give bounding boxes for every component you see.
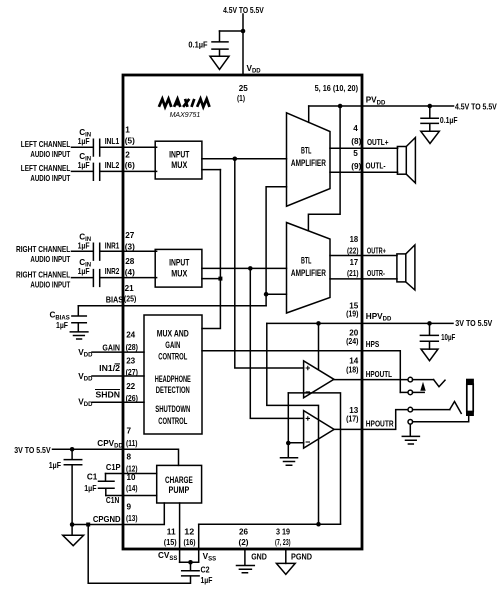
op-amp headphone R [304,411,335,449]
svg-text:1µF: 1µF [78,137,90,146]
jack contact circle tip R [408,407,413,412]
svg-text:(28): (28) [126,343,139,352]
op-amp headphone L [304,361,334,398]
wire detect contact [400,391,408,393]
wire mux1 select [202,169,221,171]
svg-text:CHARGE: CHARGE [165,475,193,485]
svg-text:CPVDD: CPVDD [97,439,123,450]
wire PGND pin [285,550,287,563]
svg-text:0.1µF: 0.1µF [188,41,207,50]
svg-text:GAIN: GAIN [102,343,120,352]
svg-text:SHUTDOWN: SHUTDOWN [155,404,190,414]
svg-text:1µF: 1µF [201,576,213,585]
svg-text:26: 26 [239,527,248,536]
svg-text:AUDIO INPUT: AUDIO INPUT [30,174,70,183]
svg-text:(19): (19) [346,310,359,319]
wire PVDD rail [309,105,454,107]
svg-text:(3): (3) [125,242,135,251]
svg-text:7: 7 [127,426,132,435]
wire VSS pin [180,524,199,562]
svg-text:AMPLIFIER: AMPLIFIER [291,268,326,278]
svg-text:VSS: VSS [203,552,216,563]
svg-text:INPUT: INPUT [169,149,190,159]
svg-text:4.5V TO 5.5V: 4.5V TO 5.5V [223,6,264,15]
svg-text:BTL: BTL [301,255,312,265]
wire opamp1 - feedback [288,393,340,524]
capacitor CIN 1uF INL2 [72,163,157,180]
svg-text:DETECTION: DETECTION [156,385,190,395]
node CPGND return junction [86,523,90,527]
svg-text:5, 16 (10, 20): 5, 16 (10, 20) [315,84,359,93]
wire SHDN pin [92,401,144,403]
node CPVDD junction [70,447,75,452]
svg-text:4: 4 [353,124,358,133]
svg-text:C1: C1 [87,473,98,482]
svg-text:(13): (13) [126,514,138,523]
svg-text:1: 1 [125,126,130,135]
svg-text:HPOUTL: HPOUTL [366,370,392,379]
capacitor CIN 1uF INR2 [72,270,157,287]
wire OUTR- [330,278,397,280]
svg-text:(26): (26) [126,394,139,403]
wire IN1/2 pin [92,375,144,377]
ground PGND triangle [276,563,295,574]
opamp1 minus sign [306,391,310,393]
svg-text:BIAS: BIAS [106,296,124,305]
input mux U-right box [155,249,202,287]
svg-text:10µF: 10µF [441,333,455,342]
opamp2 plus sign [306,416,310,420]
wire sleeve to jack [413,416,469,422]
wire HPOUTR [334,410,408,430]
svg-text:(17): (17) [346,414,359,423]
svg-text:3V TO 5.5V: 3V TO 5.5V [14,446,51,455]
capacitor 1uF CPVDD [64,449,81,524]
capacitor C2 1uF [182,562,199,576]
svg-text:C1N: C1N [106,496,119,505]
svg-text:(15): (15) [164,538,177,547]
wire CPGND [72,503,164,525]
node CPGND junction left [70,522,75,527]
svg-text:OUTR-: OUTR- [367,269,385,278]
wire supply to C-bypass top [220,30,244,32]
svg-text:LEFT CHANNEL: LEFT CHANNEL [21,164,71,173]
svg-text:AUDIO INPUT: AUDIO INPUT [30,280,70,289]
svg-text:VDD: VDD [247,64,262,75]
node PVDD junction at amp taps [338,104,343,109]
charge pump box [157,465,202,503]
svg-text:VDD: VDD [78,348,93,359]
svg-text:1µF: 1µF [78,267,90,276]
capacitor CBIAS 1uF [72,306,86,332]
svg-text:HPS: HPS [366,340,380,349]
wire mux1 to opamp1 + [235,159,304,368]
svg-text:HPOUTR: HPOUTR [366,419,394,428]
svg-text:(21): (21) [347,269,359,278]
svg-text:CONTROL: CONTROL [158,352,187,362]
svg-text:24: 24 [126,330,135,339]
svg-text:CVSS: CVSS [158,551,177,562]
wire BIAS [78,305,266,307]
svg-text:IN1/2: IN1/2 [99,364,120,373]
ground jack bars [402,436,419,444]
IC U1 MAX9751 box [123,75,362,549]
node opamp ground junction [286,441,291,446]
wire circle3 to lever R [413,409,450,411]
svg-text:INL2: INL2 [105,161,120,170]
wire control to mux select [202,170,220,329]
node mux select junction [218,277,222,281]
svg-text:(4): (4) [125,268,135,277]
svg-text:PVDD: PVDD [366,96,386,107]
svg-text:9: 9 [127,502,132,511]
switch lever R [450,402,461,414]
wire OUTR+ [330,255,397,257]
svg-text:3 19: 3 19 [276,527,290,536]
ground GND bars [237,566,255,573]
capacitor CIN 1uF INR1 [72,243,157,260]
svg-text:GAIN: GAIN [165,340,180,350]
control block box [144,315,202,434]
svg-text:8: 8 [127,452,132,461]
node HPVDD junction opamp1 [316,321,321,326]
svg-text:(7, 23): (7, 23) [275,538,291,547]
wire to opamp ground [287,443,289,457]
opamp1 plus sign [306,366,310,370]
ground HPVDD triangle [421,349,438,361]
svg-text:INR2: INR2 [105,267,120,276]
svg-text:12: 12 [184,527,194,536]
svg-text:1µF: 1µF [56,321,68,330]
ground PVDD bypass triangle [421,131,440,143]
op-amp BTL amplifier 2 [287,223,331,314]
svg-text:RIGHT CHANNEL: RIGHT CHANNEL [16,245,70,254]
wire C1P [106,473,157,475]
svg-text:1µF: 1µF [84,484,96,493]
svg-text:VDD: VDD [78,398,93,409]
node mux1 output junction [233,157,238,162]
svg-text:27: 27 [125,231,135,240]
svg-text:MUX AND: MUX AND [157,328,189,338]
speaker left channel [397,147,406,175]
node PVDD junction right supply [428,104,433,109]
wire bias to amplifiers [266,187,286,306]
svg-text:(22): (22) [347,246,359,255]
wire VSS internal rail [199,523,341,525]
svg-text:MUX: MUX [171,268,187,278]
svg-text:INPUT: INPUT [169,258,190,268]
input mux U-left box [155,141,202,179]
capacitor 10uF HPVDD [420,323,438,349]
node mux2 output junction [248,266,253,271]
wire HPOUTL [334,379,408,381]
jack contact circle sleeve [408,420,413,425]
svg-text:(2): (2) [238,538,248,547]
svg-text:OUTR+: OUTR+ [367,246,386,255]
wire PVDD tap to BTL amp1 [308,106,310,122]
wire PVDD tap to BTL amp2 [308,106,340,231]
svg-text:(27): (27) [126,368,139,377]
svg-text:(9): (9) [351,162,361,171]
svg-text:10: 10 [127,473,136,482]
svg-text:0.1µF: 0.1µF [440,116,458,125]
svg-text:INR1: INR1 [105,242,120,251]
speaker right channel [397,254,406,282]
wire mux2 to opamp2 + [250,268,303,418]
svg-text:(14): (14) [126,484,138,493]
svg-text:28: 28 [125,257,135,266]
node VSS rail junction [316,522,321,527]
svg-text:AUDIO INPUT: AUDIO INPUT [30,255,70,264]
wire CPVDD supply [53,449,179,465]
wire circle1 to lever [413,379,434,381]
jack contact circle tip L [408,377,413,382]
svg-text:OUTL+: OUTL+ [367,138,389,147]
svg-text:MUX: MUX [171,160,187,170]
wire C1N [106,495,157,497]
ground CBIAS bars [70,332,88,339]
jack contact circle detect [408,390,413,395]
node C2 junction [188,560,193,565]
wire CVSS pin [179,503,181,562]
wire mux1 output to BTL amp1 [202,158,287,160]
op-amp BTL amplifier 1 [287,113,331,206]
svg-text:HEADPHONE: HEADPHONE [155,374,191,384]
svg-text:17: 17 [350,258,359,267]
node VDD supply junction [241,29,246,34]
wire HPVDD to opamp2 power [267,323,319,524]
svg-text:(1): (1) [237,94,245,103]
svg-text:(18): (18) [346,365,359,374]
wire GAIN pin [92,351,144,353]
opamp2 minus sign [306,441,310,443]
overline IN1/2 bar over 2 [115,363,120,365]
node HPVDD junction right supply [427,321,432,326]
svg-text:(11): (11) [126,439,138,448]
svg-text:AMPLIFIER: AMPLIFIER [291,158,326,168]
svg-text:CONTROL: CONTROL [158,416,187,426]
switch lever L [434,380,445,387]
svg-text:(16): (16) [184,538,196,547]
wire OUTL+ [330,147,398,149]
svg-text:(5): (5) [125,137,135,146]
overline SHDN [95,389,120,391]
svg-text:INL1: INL1 [105,137,120,146]
svg-text:(24): (24) [346,337,359,346]
svg-text:SHDN: SHDN [96,390,121,399]
svg-text:CBIAS: CBIAS [50,311,70,322]
svg-text:PGND: PGND [291,552,312,561]
wire OUTL- [330,171,398,173]
wire sleeve to ground [409,424,411,436]
svg-text:OUTL-: OUTL- [366,162,386,171]
svg-text:(25): (25) [124,295,137,304]
capacitor 0.1uF top bypass [212,31,228,56]
node bias junction [264,292,269,297]
capacitor 0.1uF PVDD bypass [421,106,438,131]
ground CPVDD triangle [63,525,84,546]
logo MAXIM [159,99,210,107]
wire HPS row [202,351,400,393]
svg-text:21: 21 [125,284,134,293]
svg-text:1µF: 1µF [49,461,61,470]
wire HPVDD to opamp1 power [318,323,320,369]
wire VDD supply vertical [242,14,244,74]
svg-text:5: 5 [353,149,358,158]
svg-text:RIGHT CHANNEL: RIGHT CHANNEL [16,271,70,280]
svg-text:MAX9751: MAX9751 [170,110,201,119]
wire mux2 output to BTL amp2 [202,267,287,269]
svg-text:3V TO 5.5V: 3V TO 5.5V [455,319,492,328]
wire opamp1 - to ground rail [287,393,289,443]
svg-text:AUDIO INPUT: AUDIO INPUT [30,150,70,159]
headphone jack plug [466,379,474,385]
ground top bypass triangle [210,56,229,69]
wire circle2 to arrow [413,391,425,393]
wire ground return to C2 [88,525,190,584]
capacitor CIN 1uF INL1 [72,139,157,156]
svg-text:VDD: VDD [78,372,93,383]
svg-text:LEFT CHANNEL: LEFT CHANNEL [21,140,71,149]
svg-text:PUMP: PUMP [169,485,190,495]
svg-text:(8): (8) [351,137,361,146]
svg-text:BTL: BTL [301,145,312,155]
wire GND pin [244,550,246,565]
wire mux2 select [202,278,221,280]
svg-text:25: 25 [239,84,248,93]
svg-text:18: 18 [350,235,359,244]
svg-text:23: 23 [126,356,135,365]
svg-text:4.5V TO 5.5V: 4.5V TO 5.5V [455,102,497,111]
svg-text:2: 2 [125,150,130,159]
svg-text:11: 11 [167,527,176,536]
capacitor C1 1uF [99,474,115,496]
svg-text:CPGND: CPGND [93,515,121,524]
svg-text:C2: C2 [201,566,210,575]
ground opamp bars [281,458,298,466]
svg-text:GND: GND [251,552,267,561]
svg-text:22: 22 [126,382,135,391]
svg-text:(12): (12) [126,464,138,473]
svg-text:1µF: 1µF [78,242,90,251]
svg-text:HPVDD: HPVDD [366,312,392,323]
wire opamp2 - input [288,442,303,444]
svg-text:1µF: 1µF [78,161,90,170]
svg-text:(6): (6) [125,161,135,170]
wire HPVDD rail [267,322,453,324]
svg-text:C1P: C1P [106,463,121,472]
arrow detect up [420,382,425,391]
